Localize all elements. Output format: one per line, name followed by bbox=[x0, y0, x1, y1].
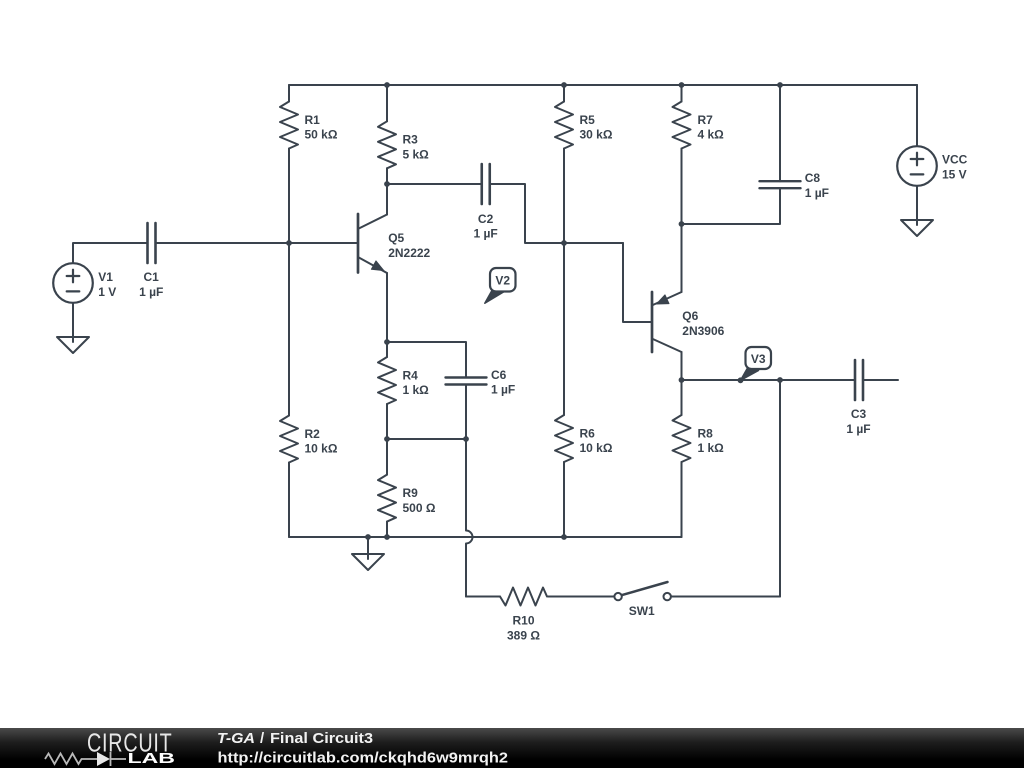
node R6 ground bbox=[561, 534, 567, 540]
wire R3/collector node to C2 bbox=[387, 183, 482, 185]
node R3 / Q5 collector bbox=[384, 181, 390, 187]
wire SW1 to R10 bbox=[548, 596, 615, 598]
svg-text:V1: V1 bbox=[98, 270, 113, 284]
svg-text:1 µF: 1 µF bbox=[805, 186, 829, 200]
capacitor C3 bbox=[846, 360, 870, 436]
transistor Q6 bbox=[652, 292, 725, 352]
svg-text:R4: R4 bbox=[403, 368, 419, 382]
svg-text:V2: V2 bbox=[495, 274, 510, 288]
wire feedback left riser lower bbox=[465, 544, 467, 597]
svg-text:15 V: 15 V bbox=[942, 167, 967, 181]
svg-text:4 kΩ: 4 kΩ bbox=[698, 128, 725, 142]
node R5 top rail bbox=[561, 82, 567, 88]
wire C2 to junction row bbox=[490, 184, 624, 243]
node C6 bottom bbox=[463, 436, 469, 442]
resistor R7 bbox=[673, 102, 725, 149]
wire hop over ground rail bbox=[466, 531, 473, 544]
svg-text:5 kΩ: 5 kΩ bbox=[403, 148, 430, 162]
svg-text:C3: C3 bbox=[851, 407, 867, 421]
svg-text:C6: C6 bbox=[491, 368, 507, 382]
node R7 top rail bbox=[679, 82, 685, 88]
capacitor C6 bbox=[446, 368, 516, 397]
voltage source V1 bbox=[53, 263, 116, 303]
wire R6 bottom lead bbox=[563, 462, 565, 537]
svg-text:R6: R6 bbox=[580, 426, 596, 440]
wire R9 bottom lead bbox=[386, 522, 388, 537]
node Q5 base / bias bbox=[286, 240, 292, 246]
wire V1 top lead bbox=[73, 243, 147, 263]
svg-text:389 Ω: 389 Ω bbox=[507, 628, 540, 642]
node R3 top rail bbox=[384, 82, 390, 88]
node ground rail attach bbox=[365, 534, 371, 540]
svg-text:SW1: SW1 bbox=[629, 604, 655, 618]
svg-text:Final Circuit3: Final Circuit3 bbox=[270, 730, 373, 747]
wire feedback left riser upper bbox=[465, 439, 467, 531]
svg-text:500 Ω: 500 Ω bbox=[403, 501, 436, 515]
node feedback junction bbox=[777, 377, 783, 383]
svg-text:C8: C8 bbox=[805, 171, 821, 185]
resistor R6 bbox=[555, 415, 613, 462]
wire V1 bottom lead bbox=[72, 303, 74, 342]
wire R8 top lead bbox=[681, 380, 683, 415]
wire R2 bottom lead bbox=[288, 463, 290, 538]
probe flag V3 bbox=[741, 347, 772, 380]
ground (rail) bbox=[352, 554, 384, 570]
wire feedback riser bbox=[779, 380, 781, 597]
svg-text:R3: R3 bbox=[403, 133, 419, 147]
svg-text:R9: R9 bbox=[403, 486, 419, 500]
wire R5 top lead bbox=[563, 85, 565, 102]
svg-text:C1: C1 bbox=[144, 270, 160, 284]
node V3 attach bbox=[738, 377, 744, 383]
wire Q6 base drop bbox=[623, 243, 652, 322]
wire VCC drop bbox=[916, 85, 918, 146]
transistor Q5 bbox=[358, 214, 431, 273]
capacitor C1 bbox=[139, 223, 163, 299]
node Q5 emitter / R4 bbox=[384, 339, 390, 345]
resistor R10 bbox=[500, 588, 547, 643]
svg-text:Q6: Q6 bbox=[682, 309, 698, 323]
capacitor C2 bbox=[473, 164, 497, 241]
svg-text:1 kΩ: 1 kΩ bbox=[403, 383, 430, 397]
wire R8 bottom lead bbox=[681, 462, 683, 537]
wire R5-to-R6 (middle bias line) bbox=[563, 149, 565, 416]
svg-text:T-GA: T-GA bbox=[217, 730, 255, 747]
svg-text:V3: V3 bbox=[751, 352, 766, 366]
resistor R1 bbox=[280, 102, 338, 149]
wire C1 to base node bbox=[156, 242, 359, 244]
node R9 ground bbox=[384, 534, 390, 540]
wire Q6 collector drop bbox=[681, 352, 683, 380]
svg-text:2N2222: 2N2222 bbox=[388, 246, 430, 260]
node R4 / R9 / C6 bbox=[384, 436, 390, 442]
svg-text:1 µF: 1 µF bbox=[139, 285, 163, 299]
svg-text:R1: R1 bbox=[305, 113, 321, 127]
resistor R3 bbox=[378, 121, 429, 168]
node C2 / middle bias bbox=[561, 240, 567, 246]
svg-text:10 kΩ: 10 kΩ bbox=[580, 441, 613, 455]
svg-text:1 µF: 1 µF bbox=[491, 383, 515, 397]
svg-text:30 kΩ: 30 kΩ bbox=[580, 128, 613, 142]
wire ground stem (rail) bbox=[367, 537, 369, 559]
svg-text:Q5: Q5 bbox=[388, 231, 404, 245]
resistor R5 bbox=[555, 102, 613, 149]
node Q6 collector / R8 / output bbox=[679, 377, 685, 383]
switch SW1 bbox=[614, 582, 671, 618]
wire node to C6 top bbox=[387, 342, 466, 378]
ground (V1) bbox=[57, 337, 89, 353]
wire C3 right stub bbox=[863, 379, 898, 381]
svg-text:10 kΩ: 10 kΩ bbox=[305, 442, 338, 456]
wire Q5 collector riser bbox=[386, 184, 388, 215]
svg-text:1 µF: 1 µF bbox=[846, 422, 870, 436]
wire bottom ground rail bbox=[289, 536, 682, 538]
svg-text:http://circuitlab.com/ckqhd6w9: http://circuitlab.com/ckqhd6w9mrqh2 bbox=[218, 750, 509, 767]
svg-text:R8: R8 bbox=[698, 426, 714, 440]
wire R7 bottom lead to node bbox=[681, 149, 683, 225]
wire R10 left lead bbox=[466, 596, 500, 598]
wire VCC bottom lead bbox=[916, 186, 918, 225]
wire R9 top lead bbox=[386, 439, 388, 475]
ground (VCC) bbox=[901, 220, 933, 236]
wire R7 node to C8 bottom bbox=[682, 188, 781, 224]
resistor R4 bbox=[378, 357, 429, 404]
node R7 bottom / C8 / Q6 emitter bbox=[679, 221, 685, 227]
resistor R9 bbox=[378, 475, 436, 522]
wire output row bbox=[682, 379, 856, 381]
wire R4 bottom to C6 bottom bbox=[387, 438, 466, 440]
node C8 top rail bbox=[777, 82, 783, 88]
footer bar bbox=[0, 728, 1024, 768]
wire Q5 base lead bbox=[289, 242, 358, 244]
CircuitLab logo resistor-diode glyph bbox=[45, 752, 126, 766]
svg-text:1 V: 1 V bbox=[98, 285, 116, 299]
wire R7 top lead bbox=[681, 85, 683, 102]
svg-text:R10: R10 bbox=[512, 614, 534, 628]
svg-text:2N3906: 2N3906 bbox=[682, 324, 724, 338]
svg-text:R2: R2 bbox=[305, 427, 321, 441]
wire R4 top lead bbox=[386, 342, 388, 357]
wire feedback bottom right bbox=[671, 596, 780, 598]
probe flag V2 bbox=[485, 268, 516, 303]
wire R3 top lead bbox=[386, 85, 388, 121]
svg-text:1 kΩ: 1 kΩ bbox=[698, 441, 725, 455]
svg-text:1 µF: 1 µF bbox=[473, 227, 497, 241]
resistor R8 bbox=[673, 415, 725, 462]
wire C8 top lead bbox=[779, 85, 781, 181]
resistor R2 bbox=[280, 416, 338, 463]
capacitor C8 bbox=[760, 171, 829, 200]
wire R1-to-R2 (left bias line) bbox=[288, 149, 290, 416]
wire R3 bottom lead bbox=[386, 168, 388, 184]
wire R4 bottom lead bbox=[386, 404, 388, 439]
wire R1 top lead bbox=[288, 85, 290, 102]
svg-text:VCC: VCC bbox=[942, 152, 968, 166]
wire Q5 emitter drop bbox=[386, 273, 388, 342]
svg-text:LAB: LAB bbox=[128, 750, 176, 767]
svg-text:50 kΩ: 50 kΩ bbox=[305, 128, 338, 142]
svg-text:R7: R7 bbox=[698, 113, 714, 127]
svg-text:R5: R5 bbox=[580, 113, 596, 127]
wire top supply rail bbox=[289, 84, 917, 86]
wire C6 bottom lead bbox=[465, 385, 467, 440]
wire Q6 emitter riser bbox=[681, 224, 683, 292]
svg-text:C2: C2 bbox=[478, 212, 494, 226]
voltage source VCC bbox=[897, 146, 967, 186]
